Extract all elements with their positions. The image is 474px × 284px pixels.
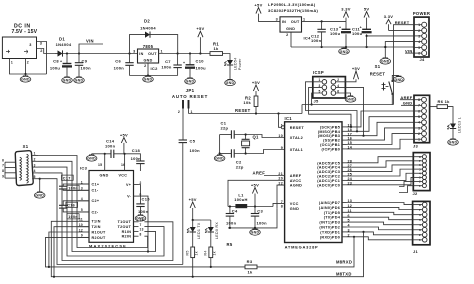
ground below C9 xyxy=(74,77,85,84)
svg-text:(ADC5)PC5: (ADC5)PC5 xyxy=(317,161,340,165)
svg-text:C15: C15 xyxy=(142,196,151,201)
svg-text:GND: GND xyxy=(251,231,260,235)
ground analog xyxy=(250,228,261,235)
wire M8RXD net xyxy=(49,232,354,268)
capacitor C6 100n xyxy=(114,54,134,76)
svg-text:IC1: IC1 xyxy=(285,116,293,121)
LED1 TX xyxy=(187,222,201,247)
capacitor C16 100n xyxy=(59,201,89,219)
capacitor C11 100u xyxy=(352,25,372,47)
svg-text:(T1)PD5: (T1)PD5 xyxy=(324,211,340,215)
svg-text:+5V: +5V xyxy=(251,182,259,187)
svg-text:3.3V: 3.3V xyxy=(384,14,393,19)
svg-text:R5: R5 xyxy=(185,250,189,255)
wire reset to IC1 pin1 xyxy=(279,114,285,129)
svg-text:(ADC0)PC0: (ADC0)PC0 xyxy=(317,183,340,187)
capacitor C1 22p xyxy=(220,121,235,139)
wire J2 pin1 stub xyxy=(399,186,413,193)
svg-text:(ADC3)PC3: (ADC3)PC3 xyxy=(317,170,340,174)
svg-text:T1OUT: T1OUT xyxy=(118,220,132,224)
svg-text:C18: C18 xyxy=(132,148,141,153)
svg-text:1k: 1k xyxy=(247,269,253,274)
svg-text:AREF: AREF xyxy=(253,171,266,176)
label VIN at J4 xyxy=(405,48,414,53)
svg-text:3.3V: 3.3V xyxy=(341,6,350,11)
inductor L1 100uH xyxy=(228,192,273,207)
label M8RXD xyxy=(336,259,352,264)
wire AVCC to L1 node xyxy=(228,180,285,206)
IC1 right pin labels xyxy=(317,124,352,240)
svg-text:VIN: VIN xyxy=(86,38,94,43)
svg-text:(AIN1)PD7: (AIN1)PD7 xyxy=(319,201,340,205)
wire ICSP SCK to PB5 xyxy=(309,87,351,127)
svg-text:2: 2 xyxy=(34,158,36,162)
capacitor C7 100n xyxy=(161,54,181,76)
svg-text:(ADC2)PC2: (ADC2)PC2 xyxy=(317,175,340,179)
ground below C15 xyxy=(135,215,146,222)
svg-text:4: 4 xyxy=(34,169,36,173)
diode D1 1N4004 xyxy=(55,37,72,57)
svg-text:2: 2 xyxy=(40,49,42,53)
svg-text:C2+: C2+ xyxy=(92,199,100,203)
svg-text:IC3: IC3 xyxy=(80,166,88,171)
svg-text:2: 2 xyxy=(27,61,29,65)
power 3.3V arrow at J4 xyxy=(384,14,414,30)
svg-text:AVCC: AVCC xyxy=(290,179,302,183)
capacitor C4 100n xyxy=(226,207,238,228)
wires PC5-PC0 to J2 xyxy=(347,157,414,185)
svg-text:100n: 100n xyxy=(161,65,172,70)
power +5V arrow at ICSP xyxy=(336,66,360,82)
svg-text:+5V: +5V xyxy=(254,2,262,7)
svg-text:GND: GND xyxy=(75,79,84,83)
svg-text:LED54: LED54 xyxy=(234,58,238,71)
svg-text:7: 7 xyxy=(2,164,4,168)
svg-text:1: 1 xyxy=(303,18,305,22)
power +5V arrow to IC4 xyxy=(254,2,280,21)
label GND at J3 xyxy=(401,101,414,106)
svg-text:J5: J5 xyxy=(314,98,320,103)
svg-text:2: 2 xyxy=(144,64,146,68)
wires PD7-PD0 to J1 xyxy=(347,203,413,240)
svg-text:9: 9 xyxy=(281,146,283,150)
svg-text:GND: GND xyxy=(346,98,355,102)
svg-text:C10: C10 xyxy=(196,58,205,63)
connector X1 DB9 serial xyxy=(15,144,33,185)
svg-text:1k: 1k xyxy=(213,46,219,51)
wire S1 to ground xyxy=(392,75,404,82)
connector J1 digital header xyxy=(413,201,430,253)
svg-text:100u: 100u xyxy=(330,31,341,36)
svg-text:MAX202ECSE: MAX202ECSE xyxy=(89,244,127,249)
svg-text:XTAL2: XTAL2 xyxy=(290,136,303,140)
svg-text:100n: 100n xyxy=(311,38,322,43)
svg-text:3: 3 xyxy=(276,18,278,22)
svg-text:100n: 100n xyxy=(105,144,116,149)
capacitor C3 100n xyxy=(251,207,267,228)
resistor R6 1k xyxy=(430,99,453,123)
svg-text:GND: GND xyxy=(226,81,235,85)
LED54 Power xyxy=(224,58,242,80)
power +5V arrow at MAX202 xyxy=(120,132,128,155)
svg-text:+5V: +5V xyxy=(189,197,197,202)
svg-text:J4: J4 xyxy=(420,57,426,62)
ground at C14 xyxy=(86,154,104,161)
svg-text:C8: C8 xyxy=(53,58,59,63)
svg-text:C7: C7 xyxy=(165,59,171,64)
svg-text:8: 8 xyxy=(281,205,283,209)
svg-text:(ADC4)PC4: (ADC4)PC4 xyxy=(317,166,341,170)
svg-text:+5V: +5V xyxy=(120,132,128,137)
svg-text:GND: GND xyxy=(136,217,145,221)
svg-text:5V: 5V xyxy=(364,6,370,11)
capacitor C15 100n at V+ xyxy=(136,185,150,215)
LED13 L xyxy=(447,117,462,139)
wires PB5-PB0 to J3 xyxy=(347,111,415,149)
wire DC jack pin2 to diode D1 xyxy=(37,49,56,54)
wire ICSP MISO to PB4 xyxy=(306,82,358,132)
label AREF at IC1 xyxy=(253,171,285,176)
svg-text:C3: C3 xyxy=(257,209,263,214)
capacitor C8 100u xyxy=(50,54,72,77)
connector J2 analog header xyxy=(413,153,431,197)
capacitor C14 100n xyxy=(104,139,125,171)
svg-text:J1: J1 xyxy=(413,249,419,254)
wire X1.2 to R1IN xyxy=(38,161,156,251)
wire T2IN to M8TXD xyxy=(53,227,89,278)
svg-text:LED1 TX: LED1 TX xyxy=(197,222,201,239)
svg-text:VIN: VIN xyxy=(405,48,413,53)
microcontroller IC1 ATMEGA328P xyxy=(278,116,342,249)
svg-text:R2OUT: R2OUT xyxy=(92,236,106,240)
svg-text:(MOSI)PB3: (MOSI)PB3 xyxy=(318,134,340,138)
svg-text:100n: 100n xyxy=(257,220,268,225)
svg-text:1N4004: 1N4004 xyxy=(56,42,72,47)
svg-text:Q1: Q1 xyxy=(253,135,260,140)
wire VCC to +5V node xyxy=(273,203,285,206)
svg-text:22p: 22p xyxy=(236,164,244,169)
svg-text:100n: 100n xyxy=(138,209,149,214)
wire VIN rail D1 to 7805 IN xyxy=(62,52,138,54)
svg-text:T2IN: T2IN xyxy=(92,225,101,229)
svg-text:2: 2 xyxy=(286,33,288,37)
wire +5V rail 7805 OUT to R1 xyxy=(159,52,210,54)
crystal Q1 xyxy=(242,135,259,154)
RS232 driver IC3 MAX202ECSE xyxy=(78,163,144,249)
svg-text:1: 1 xyxy=(34,152,36,156)
svg-text:GND: GND xyxy=(290,207,299,211)
svg-text:ICSP: ICSP xyxy=(313,70,324,75)
svg-text:GND: GND xyxy=(186,80,195,84)
svg-text:VCC: VCC xyxy=(119,173,128,177)
capacitor C12 100n xyxy=(311,21,326,47)
svg-text:RESET: RESET xyxy=(235,108,251,113)
svg-text:+5V: +5V xyxy=(352,66,360,71)
svg-text:LED13 L: LED13 L xyxy=(458,117,462,133)
resistor R2 10k xyxy=(243,95,257,113)
svg-text:(TXD)PD1: (TXD)PD1 xyxy=(320,230,340,234)
svg-text:D1: D1 xyxy=(59,37,65,42)
svg-text:7805: 7805 xyxy=(143,44,154,49)
wire DC jack pin3 to bottom xyxy=(37,42,47,75)
svg-text:100u: 100u xyxy=(196,65,207,70)
ground at crystal caps xyxy=(214,154,225,162)
svg-text:12: 12 xyxy=(79,228,83,232)
svg-text:VCC: VCC xyxy=(290,202,299,206)
svg-text:POWER: POWER xyxy=(413,11,430,16)
svg-text:3: 3 xyxy=(133,50,135,54)
svg-text:100u: 100u xyxy=(50,65,61,70)
wire ICSP RESET pin5 xyxy=(311,93,323,106)
svg-text:RESET: RESET xyxy=(395,20,410,25)
svg-text:R4: R4 xyxy=(203,250,207,255)
wire S1 to reset net xyxy=(302,94,394,105)
LED0 RX xyxy=(205,222,219,247)
svg-text:(INT0)PD2: (INT0)PD2 xyxy=(319,226,340,230)
power +5V arrow at LEDs xyxy=(189,197,197,220)
wire R2OUT to M8RXD xyxy=(46,237,90,268)
svg-text:(RXD)PD0: (RXD)PD0 xyxy=(320,235,340,239)
label DC IN xyxy=(11,23,37,34)
svg-text:AGND: AGND xyxy=(290,184,302,188)
svg-text:100n: 100n xyxy=(190,148,201,153)
ground below LED13 xyxy=(448,139,459,146)
ground at ICSP pin6 xyxy=(336,93,356,102)
wire 3.3V rail xyxy=(302,20,347,22)
svg-text:R3: R3 xyxy=(247,259,253,264)
ground below DC jack xyxy=(20,74,31,82)
connector J4 POWER header xyxy=(414,17,429,62)
svg-text:GND: GND xyxy=(394,78,403,82)
ground below X1 xyxy=(34,178,45,199)
svg-text:C16: C16 xyxy=(67,203,75,207)
svg-text:C1-: C1- xyxy=(92,189,99,193)
wire AGND to GND pin xyxy=(277,185,285,208)
capacitor C10 100u xyxy=(183,54,206,78)
svg-text:GND: GND xyxy=(21,78,30,82)
svg-text:15: 15 xyxy=(98,163,102,167)
voltage regulator IC4 LP2950 xyxy=(276,17,311,41)
wire J4 5V pin xyxy=(367,35,414,37)
resistor R5 1k TX xyxy=(185,247,198,277)
resistor R4 1k RX xyxy=(203,247,216,267)
switch S1 RESET xyxy=(370,64,394,95)
wire X1.3 to T2OUT xyxy=(38,167,164,256)
wire RESET net xyxy=(189,108,303,114)
svg-text:RESET: RESET xyxy=(290,126,305,130)
svg-text:+5V: +5V xyxy=(196,26,204,31)
svg-text:IN: IN xyxy=(139,52,143,56)
wire X1.4 to T1OUT xyxy=(38,173,173,261)
label ICSP xyxy=(313,70,324,75)
wire DC jack bottom rail xyxy=(10,59,47,76)
svg-text:R2IN: R2IN xyxy=(122,235,132,239)
label AREF at J3 xyxy=(400,95,414,100)
svg-text:3: 3 xyxy=(29,43,31,47)
svg-text:J2: J2 xyxy=(413,191,419,196)
svg-text:C4: C4 xyxy=(232,209,238,214)
X1 right pins xyxy=(32,152,38,179)
svg-text:13: 13 xyxy=(140,228,144,232)
svg-text:XTAL1: XTAL1 xyxy=(290,148,303,152)
svg-text:(ADC1)PC1: (ADC1)PC1 xyxy=(317,179,340,183)
wire LED feed xyxy=(192,219,211,227)
svg-text:GND: GND xyxy=(340,50,349,54)
svg-text:GND: GND xyxy=(144,78,153,82)
diode D2 1N4004 bypass xyxy=(130,19,178,54)
svg-text:AREF: AREF xyxy=(290,174,302,178)
svg-text:C2-: C2- xyxy=(92,210,99,214)
wire reset riser to S1 line xyxy=(301,105,303,114)
svg-text:OUT: OUT xyxy=(291,20,300,24)
svg-text:5: 5 xyxy=(34,175,36,179)
svg-text:IN: IN xyxy=(282,20,286,24)
svg-text:ATMEGA328P: ATMEGA328P xyxy=(285,244,319,249)
svg-text:1: 1 xyxy=(281,124,283,128)
svg-text:(INT1)PD3: (INT1)PD3 xyxy=(319,221,340,225)
svg-text:GND: GND xyxy=(63,79,72,83)
svg-text:GND: GND xyxy=(381,60,390,64)
svg-text:10: 10 xyxy=(278,134,283,138)
svg-text:GND: GND xyxy=(35,194,44,198)
svg-text:J3: J3 xyxy=(413,144,419,149)
label M8TXD xyxy=(336,272,352,277)
svg-text:+5V: +5V xyxy=(252,80,260,85)
svg-text:100u: 100u xyxy=(352,31,363,36)
svg-text:GND: GND xyxy=(449,141,458,145)
svg-text:R1IN: R1IN xyxy=(122,230,132,234)
voltage regulator IC2 7805 xyxy=(133,44,163,71)
capacitor C17 100n xyxy=(59,175,89,190)
svg-text:9: 9 xyxy=(2,174,4,178)
svg-text:(AIN0)PD6: (AIN0)PD6 xyxy=(319,206,340,210)
wire XTAL2 net xyxy=(234,133,284,137)
resistor R1 1k xyxy=(210,41,223,55)
jumper JP1 AUTO RESET xyxy=(172,88,208,140)
wire J2 pin2 stub xyxy=(399,182,413,187)
svg-text:V+: V+ xyxy=(126,183,131,187)
label R5 floating xyxy=(227,242,233,247)
svg-text:100uH: 100uH xyxy=(234,197,248,202)
wire V- route xyxy=(139,196,150,252)
svg-text:R6 1k: R6 1k xyxy=(438,99,451,104)
resistor R3 1k xyxy=(245,259,257,274)
svg-text:3C8202P332TH(150mA): 3C8202P332TH(150mA) xyxy=(268,8,319,13)
wire R1 to LED54 xyxy=(223,54,231,61)
label LP2950L xyxy=(268,2,319,13)
power +5V arrow main xyxy=(196,26,204,54)
capacitor C13 100u xyxy=(330,21,351,47)
connector J3 digital header xyxy=(413,95,430,148)
svg-text:2: 2 xyxy=(178,110,180,114)
svg-text:C6: C6 xyxy=(115,58,121,63)
svg-text:(MISO)PB4: (MISO)PB4 xyxy=(318,130,341,134)
svg-text:1: 1 xyxy=(11,61,13,65)
svg-text:R1OUT: R1OUT xyxy=(92,230,106,234)
svg-text:22p: 22p xyxy=(221,125,229,130)
svg-text:GND: GND xyxy=(87,157,96,161)
wire C1 C2 to ground xyxy=(219,135,221,155)
svg-text:(SCK)PB5: (SCK)PB5 xyxy=(320,125,340,129)
power 5V arrow xyxy=(364,6,370,29)
svg-text:D2: D2 xyxy=(144,19,150,24)
svg-text:100n: 100n xyxy=(81,65,92,70)
wire X1.5 DTR to C5 xyxy=(38,179,183,265)
svg-text:M8RXD: M8RXD xyxy=(336,259,352,264)
capacitor C18 100n xyxy=(125,148,145,171)
svg-text:(SS)PB2: (SS)PB2 xyxy=(323,139,340,143)
svg-text:AUTO RESET: AUTO RESET xyxy=(172,94,208,99)
svg-text:M8TXD: M8TXD xyxy=(336,272,352,277)
svg-text:JP1: JP1 xyxy=(186,88,195,93)
svg-text:R5: R5 xyxy=(227,242,233,247)
svg-text:Power: Power xyxy=(238,58,242,70)
power +5V arrow at R2 xyxy=(252,80,260,96)
svg-text:X1: X1 xyxy=(23,144,29,149)
connector X2 DC power jack xyxy=(2,37,42,65)
svg-text:+: + xyxy=(339,25,341,29)
svg-text:7.5V - 15V: 7.5V - 15V xyxy=(11,29,37,35)
wire IC4 GND to ground rail xyxy=(290,32,292,47)
svg-text:IC4: IC4 xyxy=(304,36,312,41)
ground below C8 xyxy=(62,77,73,84)
svg-text:(OC1)PB1: (OC1)PB1 xyxy=(320,143,340,147)
svg-text:AREF: AREF xyxy=(400,95,412,100)
ground on top rail xyxy=(339,47,350,54)
svg-text:IC2: IC2 xyxy=(151,66,159,71)
wire 7805 ground rail xyxy=(130,63,178,77)
svg-text:+: + xyxy=(183,61,185,65)
svg-text:GND: GND xyxy=(100,173,109,177)
svg-text:(T0)PD4: (T0)PD4 xyxy=(324,216,341,220)
svg-text:1k: 1k xyxy=(195,251,199,255)
wire J4 GND pins xyxy=(384,42,414,58)
ground below C10 xyxy=(185,78,196,85)
wire X1.1 to R2IN xyxy=(38,156,148,248)
power +5V arrow analog xyxy=(251,182,259,206)
svg-text:LP2950L-3.3V(100mA): LP2950L-3.3V(100mA) xyxy=(268,2,316,7)
svg-text:7: 7 xyxy=(140,223,142,227)
svg-text:8: 8 xyxy=(2,169,4,173)
svg-text:1k: 1k xyxy=(213,251,217,255)
ground below J4 xyxy=(380,58,391,65)
wire XTAL1 net xyxy=(234,150,284,155)
capacitor C9 100n xyxy=(75,54,91,77)
wire top ground rail xyxy=(291,46,414,48)
svg-text:V-: V- xyxy=(127,195,132,199)
svg-text:GND: GND xyxy=(215,157,224,161)
wire ICSP MOSI to PB3 xyxy=(336,87,364,135)
svg-text:8: 8 xyxy=(140,233,142,237)
svg-text:T1IN: T1IN xyxy=(92,220,101,224)
svg-text:(ICP)PB0: (ICP)PB0 xyxy=(322,147,341,151)
svg-text:10k: 10k xyxy=(243,100,251,105)
wire J4 RESET pin to reset net xyxy=(394,20,415,105)
svg-text:11: 11 xyxy=(79,218,83,222)
ground below LED54 xyxy=(225,79,236,86)
wire analog ground return xyxy=(228,208,277,229)
svg-text:LED0 RX: LED0 RX xyxy=(215,222,219,239)
capacitor C5 100n xyxy=(179,139,200,265)
svg-text:C9: C9 xyxy=(82,58,88,63)
connector J5 ICSP header xyxy=(313,77,346,104)
ground below 7805 xyxy=(143,76,154,83)
svg-text:GND: GND xyxy=(286,27,295,31)
svg-text:GND: GND xyxy=(143,58,152,62)
node VIN label xyxy=(79,38,103,53)
svg-text:3: 3 xyxy=(40,42,42,46)
svg-text:RESET: RESET xyxy=(370,72,386,77)
